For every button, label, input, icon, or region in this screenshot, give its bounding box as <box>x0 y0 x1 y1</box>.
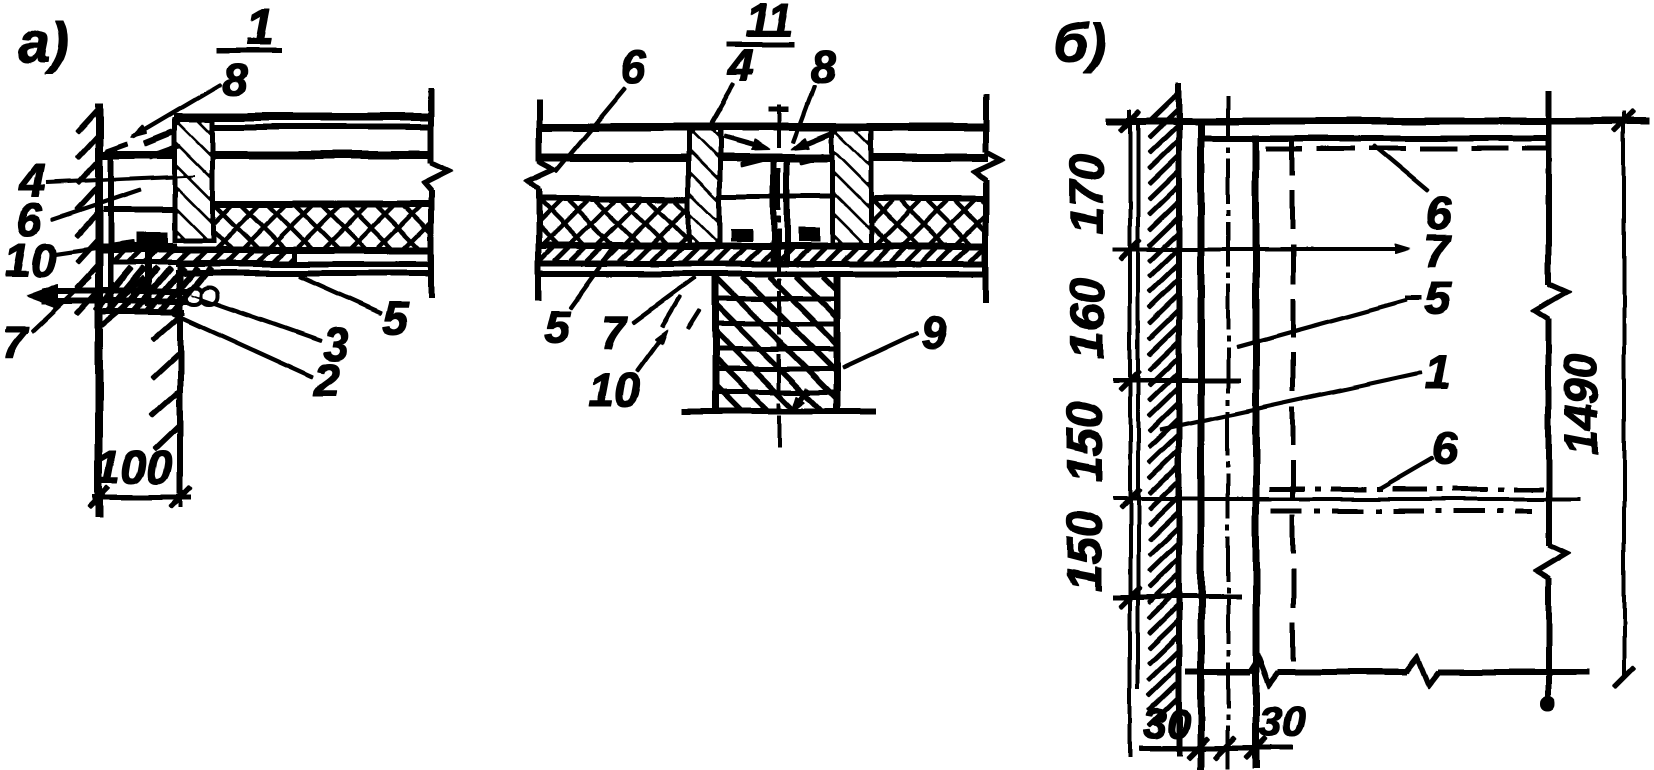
svg-text:10: 10 <box>588 364 640 416</box>
wall face line (exterior wall, detail I) <box>96 104 103 516</box>
title II underline <box>727 42 793 46</box>
wall pocket mid line y210 <box>104 208 176 213</box>
wall exterior hatching (detail I) <box>77 108 99 132</box>
sealant arrows (detail II) <box>723 137 762 148</box>
left break edge (detail II) <box>537 100 542 162</box>
leader 2 (detail I) <box>170 312 313 377</box>
svg-text:6: 6 <box>1431 422 1457 474</box>
anchor tie rod (detail I) <box>42 289 206 294</box>
left joist (detail II) <box>689 129 719 244</box>
svg-text:1490: 1490 <box>1555 352 1607 455</box>
anchor zone bottom line y312 <box>96 310 184 315</box>
svg-text:7: 7 <box>601 306 629 358</box>
ceiling line 1 (detail I) <box>176 262 431 267</box>
left dimension line (part b) <box>1129 110 1132 757</box>
svg-text:б): б) <box>1053 11 1106 74</box>
insulation top line left (detail II) <box>537 197 689 202</box>
svg-text:100: 100 <box>96 441 173 493</box>
left dimension ticks (part b) <box>1120 111 1140 131</box>
leader 10 (detail II) <box>637 335 664 372</box>
floor top plank line 2 (detail I) <box>174 125 431 130</box>
anchor zone hatch (detail I) <box>96 268 132 311</box>
boundary line 160/150 (part b) <box>1113 378 1240 382</box>
interior wall base line (detail II) <box>682 409 876 414</box>
dash-dot joint line mid lower (part b) <box>1272 509 1532 513</box>
wall right edge (part b) <box>1177 83 1182 755</box>
sealant marks (detail I) <box>145 132 172 143</box>
anchor tie arrow (detail I) <box>26 284 58 308</box>
leader 5 (detail I) <box>299 276 381 313</box>
axis line (detail II) <box>778 106 781 447</box>
leader 8 (detail II) <box>793 86 814 143</box>
1490 dimension ticks (part b) <box>1614 111 1634 131</box>
second edge line (part b) <box>1201 136 1551 141</box>
leader 10 (detail I) <box>52 242 134 254</box>
svg-text:1: 1 <box>246 0 274 55</box>
leader 6 (detail II) <box>556 88 626 172</box>
svg-text:5: 5 <box>382 292 409 344</box>
bottom edge line with breaks (part b) <box>1186 670 1250 675</box>
centre joint plank right line (detail II) <box>785 160 790 266</box>
svg-text:2: 2 <box>313 354 340 406</box>
lower wall right edge (detail I) <box>178 266 183 493</box>
cavity mid line (detail II) <box>719 194 833 198</box>
interior wall right edge (detail II) <box>834 277 840 410</box>
svg-text:5: 5 <box>544 301 571 353</box>
dimension 100 ticks <box>89 487 109 507</box>
bearing pad left (detail II) <box>731 229 752 241</box>
insulation bottom line (detail II) <box>537 243 988 249</box>
insulation top line y204 (detail I) <box>211 201 431 207</box>
ceiling line 1 (detail II) <box>537 262 988 267</box>
svg-text:а): а) <box>19 11 69 74</box>
insulation bottom line y250 (detail I) <box>96 247 431 253</box>
wall left edge (part b) <box>1137 122 1140 688</box>
dashed joint line vertical (part b) <box>1291 137 1295 667</box>
floor plank bottom line (detail II) <box>537 155 988 162</box>
leader 4 (detail I) <box>46 176 196 183</box>
top edge line (part b) <box>1107 118 1650 124</box>
leader 5 (part b) <box>1237 300 1407 347</box>
leader 6 bottom (part b) <box>1377 458 1432 490</box>
svg-text:5: 5 <box>1424 273 1451 325</box>
inner leaf line (detail I) <box>109 156 114 308</box>
interior wall base arrow (detail II) <box>797 389 808 405</box>
bearing pad right (detail II) <box>798 228 819 241</box>
leader 3 (detail I) <box>191 295 321 341</box>
svg-text:160: 160 <box>1061 278 1114 358</box>
ceiling line 2 (detail I) <box>176 271 431 276</box>
wall pocket top line y155 <box>96 152 176 159</box>
leader 1 (part b) <box>1160 373 1421 430</box>
svg-text:30: 30 <box>1259 698 1306 745</box>
interior wall left edge (detail II) <box>712 277 718 410</box>
floor plank bottom line y155 (detail I) <box>211 152 431 159</box>
bottom dimension line 30+30 (part b) <box>1139 746 1292 750</box>
boundary line 170/160 and leader 7 (part b) <box>1113 248 1403 251</box>
svg-text:8: 8 <box>810 41 836 93</box>
title I underline <box>216 48 282 52</box>
boundary line 150/150 (part b) <box>1113 498 1580 501</box>
wall hatching (part b) <box>1149 94 1178 122</box>
dash-dot joint line mid upper (part b) <box>1270 487 1543 491</box>
svg-text:150: 150 <box>1059 511 1112 591</box>
svg-text:1: 1 <box>1424 346 1450 398</box>
right break edge (detail II) <box>984 95 989 152</box>
joist (hatched bearing member, detail I) <box>175 120 212 240</box>
svg-text:7: 7 <box>1424 225 1452 277</box>
ceiling line 2 (detail II) <box>537 272 988 277</box>
svg-text:150: 150 <box>1059 402 1112 482</box>
bearing pad (detail I) <box>137 233 167 244</box>
anchor bolt (detail I) <box>146 244 152 306</box>
centre joint plank left line (detail II) <box>772 160 777 266</box>
svg-text:7: 7 <box>2 316 30 368</box>
leader 8 (detail I) <box>133 84 221 136</box>
leader 9 (detail II) <box>843 333 918 368</box>
svg-text:6: 6 <box>621 41 647 93</box>
insulation top line right (detail II) <box>871 197 988 202</box>
panel edge line 1 (part b) <box>1198 122 1204 768</box>
anchor nut washers (detail I) <box>186 288 202 304</box>
floor top plank line 1 (detail I) <box>174 114 431 121</box>
svg-text:170: 170 <box>1061 154 1114 234</box>
wall pocket bottom line y247 <box>96 244 176 250</box>
svg-text:8: 8 <box>222 53 248 105</box>
leader 7 (detail II) <box>634 278 695 323</box>
panel edge line 2 (part b) <box>1253 135 1259 768</box>
leader 7 (detail I) <box>33 277 90 331</box>
svg-text:30: 30 <box>1144 700 1191 747</box>
leader 6 (detail I) <box>52 190 141 220</box>
interior wall courses (detail II) <box>715 297 837 301</box>
dimension 1490 line (part b) <box>1623 112 1626 677</box>
dimension 100 line (detail I) <box>93 495 190 499</box>
leader 5 (detail II) <box>570 247 614 308</box>
right break line (part b) <box>1547 91 1552 284</box>
boundary line bottom of 150 (part b) <box>1113 595 1241 599</box>
panel break edge right (detail I) <box>429 88 434 163</box>
leader 4 (detail II) <box>710 84 734 126</box>
floor top plank line (detail II) <box>537 124 988 131</box>
svg-text:10: 10 <box>5 234 57 286</box>
right joist (detail II) <box>833 129 871 244</box>
axis line (part b) <box>1227 96 1230 768</box>
leader 6 top (part b) <box>1373 145 1428 191</box>
svg-text:9: 9 <box>921 306 947 358</box>
lower wall hatching (detail I) <box>152 316 180 341</box>
dashed joint line top (part b) <box>1267 146 1547 150</box>
svg-text:4: 4 <box>727 39 754 91</box>
bottom dimension ticks <box>1188 738 1208 758</box>
